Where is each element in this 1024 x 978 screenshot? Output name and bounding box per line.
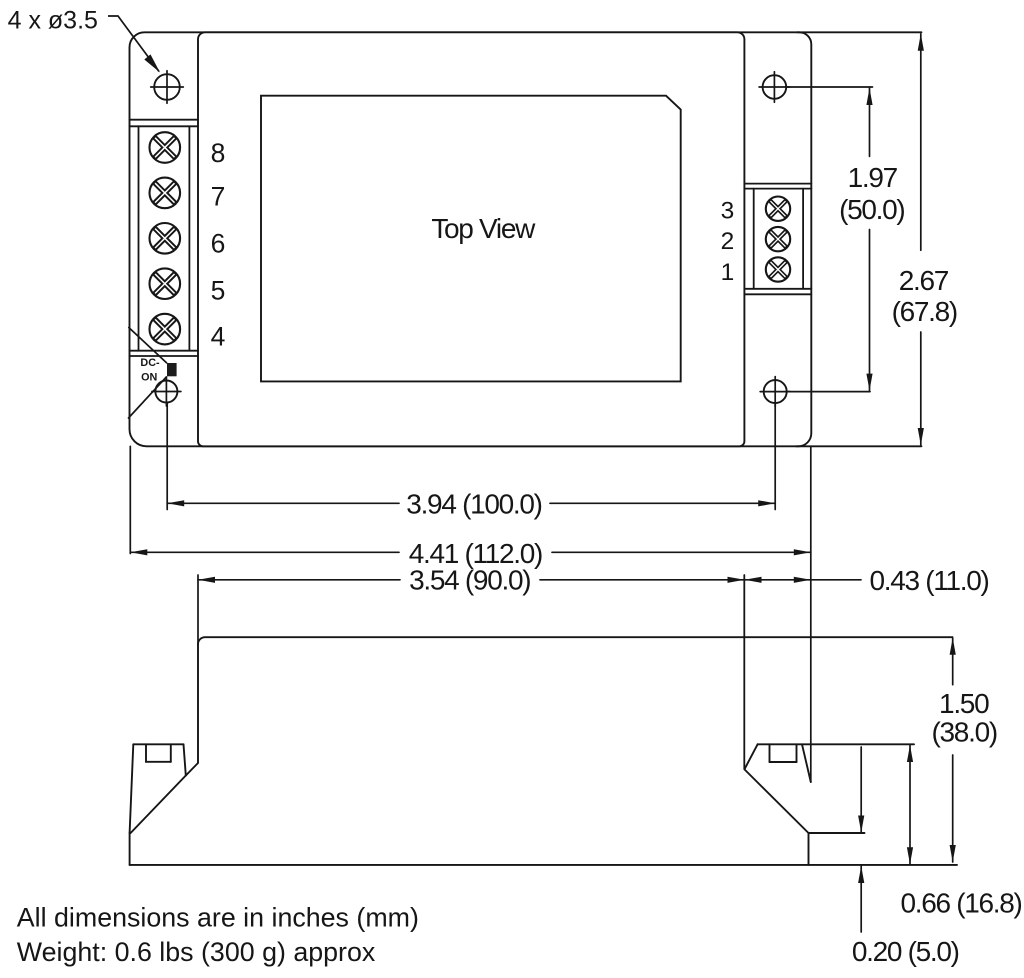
svg-text:1: 1 [721,259,735,286]
svg-text:ON: ON [141,371,157,383]
svg-text:0.43 (11.0): 0.43 (11.0) [869,565,988,596]
mounting hole top-left [154,74,180,100]
dimension line 0.20 (5.0) [860,747,862,833]
svg-text:0.66 (16.8): 0.66 (16.8) [900,888,1021,919]
svg-text:3.54 (90.0): 3.54 (90.0) [409,565,530,596]
svg-text:Top View: Top View [431,213,536,244]
svg-text:All dimensions are in inches (: All dimensions are in inches (mm) [17,903,419,933]
right terminal block body [744,183,811,185]
svg-text:5: 5 [211,276,226,306]
extension line left hole [166,403,168,510]
svg-text:7: 7 [211,181,226,211]
terminal screw 1 [766,257,790,281]
svg-text:(67.8): (67.8) [892,296,957,327]
svg-text:2.67: 2.67 [899,265,949,296]
left terminal block body [130,119,199,121]
svg-text:1.50: 1.50 [939,688,989,719]
right mounting foot [745,744,758,769]
terminal screw 3 [766,197,790,221]
extension line right flange edge [810,446,812,782]
svg-text:4: 4 [211,322,226,352]
dimension line 3.94 (100.0) [167,502,399,504]
svg-text:1.97: 1.97 [848,162,898,193]
side view top edge and left edge [198,637,953,763]
extension line right hole [774,403,776,510]
leader bottom-right hole [787,391,871,393]
inner cover rectangle [261,96,681,382]
leader top-right hole [787,86,873,88]
svg-text:4 x ø3.5: 4 x ø3.5 [8,6,98,34]
side view bottom edge [130,864,957,866]
mounting hole top-right [763,75,787,99]
left mounting foot [186,763,198,776]
extension line bottom edge [796,445,922,447]
leader line from LED to flange edge [129,377,167,418]
flange plate outline (top view) [130,32,812,446]
right foot slot [769,744,771,762]
extension line left flange edge [129,446,131,553]
terminal screw 2 [766,227,790,251]
extension line top edge [797,31,922,33]
leader arrow to mounting hole [108,16,159,72]
mounting hole bottom-right [764,380,787,403]
terminal screw 5 [150,268,181,299]
svg-text:3: 3 [721,198,735,225]
extension line body left above side view [197,575,199,645]
mounting hole bottom-left [155,381,177,403]
dimension line 1.50 (38.0) [952,638,954,685]
left foot slot [145,744,147,762]
dimension line 2.67 (67.8) [920,34,922,251]
extension line body right [743,575,745,769]
leader line to LED [129,328,167,363]
svg-text:Weight: 0.6 lbs (300 g) approx: Weight: 0.6 lbs (300 g) approx [17,937,376,967]
svg-text:8: 8 [211,138,226,168]
svg-text:DC-: DC- [140,357,160,369]
terminal screw 4 [150,314,181,345]
dimension line 1.97 (50.0) [869,88,871,156]
dimension line 3.54 (90.0) [198,579,400,581]
dimension line 4.41 (112.0) [130,551,399,553]
svg-text:2: 2 [721,228,735,255]
terminal screw 7 [150,178,181,209]
terminal screw 6 [150,223,181,254]
svg-text:(38.0): (38.0) [932,716,997,747]
svg-text:0.20 (5.0): 0.20 (5.0) [852,936,959,967]
svg-text:3.94 (100.0): 3.94 (100.0) [406,489,541,520]
svg-text:6: 6 [211,229,226,259]
dimension line 0.43 (11.0) [745,579,811,581]
terminal screw 8 [150,132,181,163]
main body outline (top view) [198,32,744,446]
dimension line 0.66 (16.8) [909,745,911,864]
DC-ON LED square [167,363,177,376]
svg-text:(50.0): (50.0) [839,194,904,225]
